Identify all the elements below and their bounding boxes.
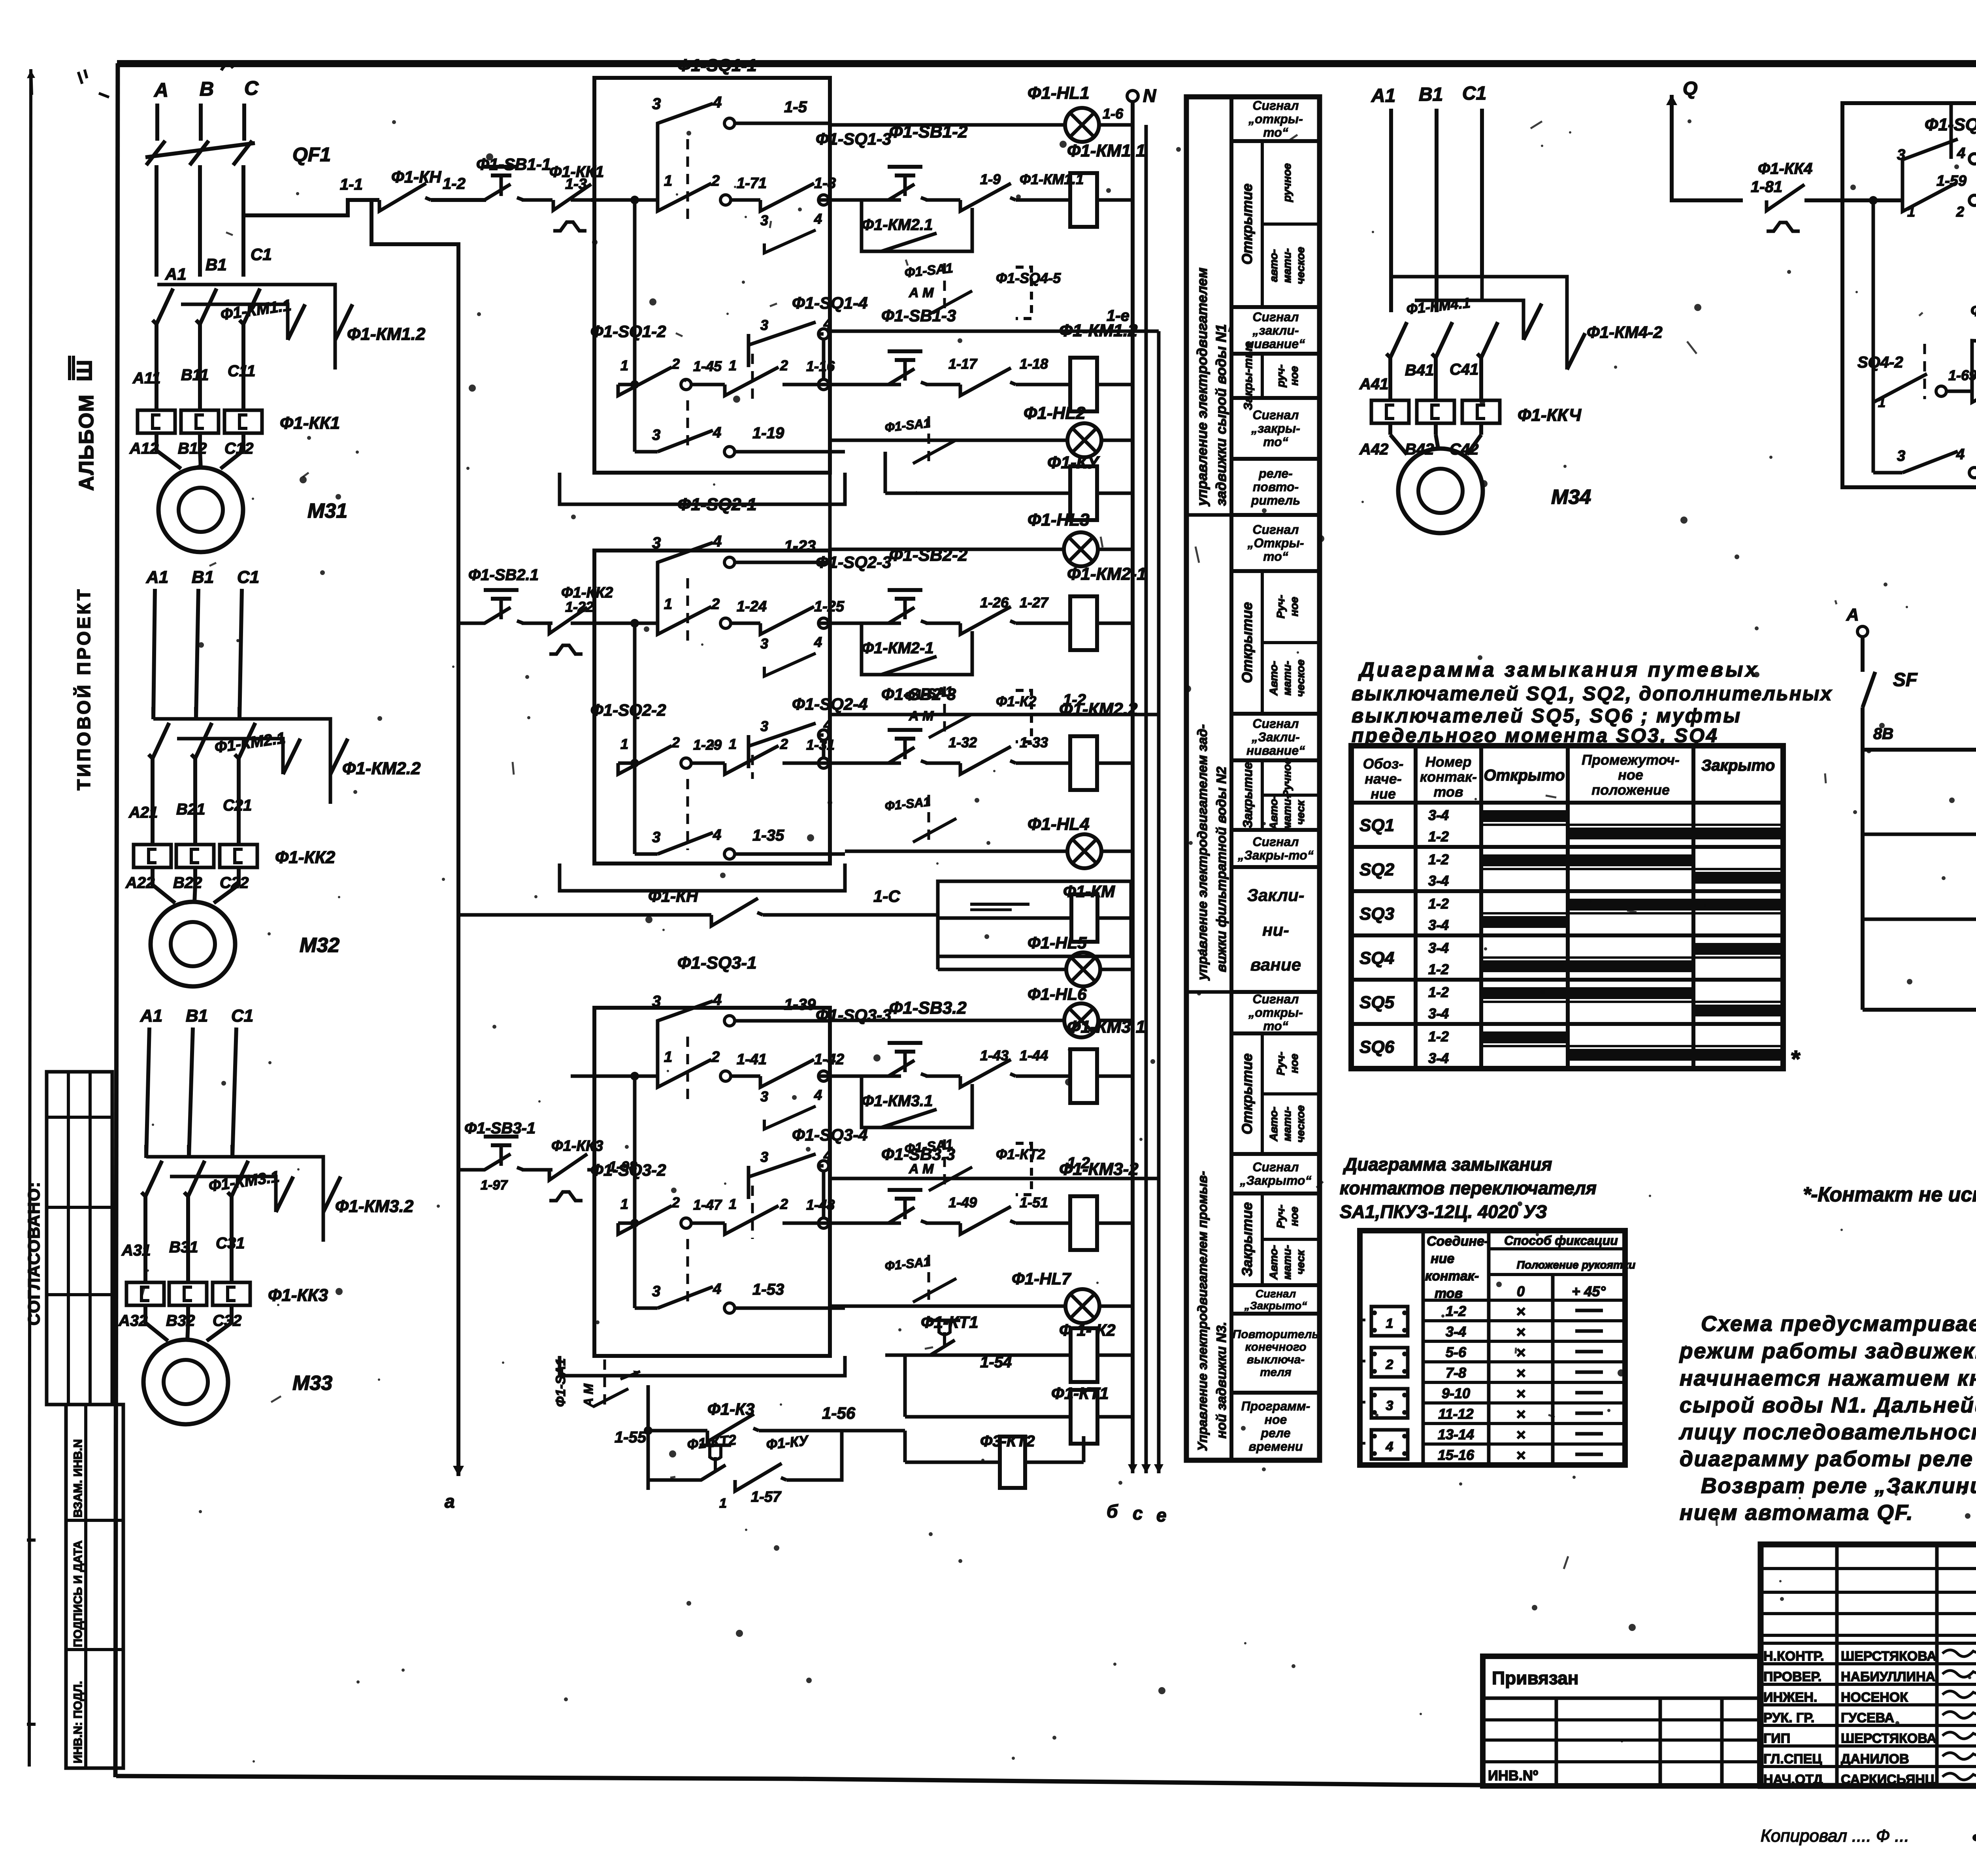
- svg-text:Ф1-НL6: Ф1-НL6: [1028, 985, 1087, 1003]
- svg-text:С1: С1: [1462, 83, 1486, 104]
- svg-text:Ф1-НL7: Ф1-НL7: [1012, 1269, 1071, 1288]
- svg-text:Ф1-SQ2-4: Ф1-SQ2-4: [792, 695, 868, 714]
- strip cell Повторитель: [1231, 1314, 1320, 1393]
- svg-text:4: 4: [713, 94, 722, 111]
- strip cell Заклинивание big: [1231, 867, 1320, 992]
- svg-text:1: 1: [620, 1196, 628, 1212]
- svg-text:Ф1-К3: Ф1-К3: [707, 1400, 754, 1418]
- strip cell Открытие with sub cells: [1231, 141, 1320, 307]
- svg-text:Руч-: Руч-: [1275, 595, 1287, 618]
- circuit breaker QF1: [146, 141, 165, 165]
- svg-text:1-24: 1-24: [737, 598, 767, 615]
- svg-text:Ф1-НL3: Ф1-НL3: [1028, 510, 1090, 530]
- svg-text:Закли-ни-вание: Закли-ни-вание: [1247, 886, 1304, 975]
- svg-text:1-3: 1-3: [565, 176, 587, 192]
- svg-text:Ручное: Ручное: [1281, 758, 1293, 798]
- svg-text:Ф1-SВ1-3: Ф1-SВ1-3: [881, 306, 956, 325]
- svg-text:1: 1: [664, 1049, 672, 1065]
- left margin tick dashes: [27, 1539, 36, 1542]
- svg-text:1-41: 1-41: [737, 1051, 767, 1068]
- svg-text:+ 45°: + 45°: [1572, 1283, 1606, 1299]
- svg-text:4: 4: [713, 424, 721, 441]
- svg-text:1-43: 1-43: [980, 1047, 1009, 1063]
- svg-text:мати-: мати-: [1281, 795, 1293, 830]
- svg-text:3: 3: [1386, 1398, 1393, 1413]
- bus end arrows б с е: [1131, 1439, 1135, 1473]
- svg-text:ное: ное: [1288, 1207, 1300, 1226]
- strip cell Сигнал: [1231, 1154, 1320, 1193]
- svg-text:9-10: 9-10: [1442, 1385, 1470, 1401]
- svg-text:Ф1-SQ1-3: Ф1-SQ1-3: [816, 130, 892, 149]
- svg-text:ручное: ручное: [1281, 163, 1293, 202]
- svg-text:Ф1-SА1: Ф1-SА1: [884, 794, 931, 813]
- svg-text:М34: М34: [1551, 486, 1591, 509]
- svg-text:1-2: 1-2: [1446, 1303, 1466, 1319]
- svg-text:руч-: руч-: [1275, 364, 1287, 388]
- svg-text:ИНВ.N: ПОДЛ.: ИНВ.N: ПОДЛ.: [72, 1681, 85, 1763]
- SA table pictogram column switches: [1371, 1307, 1408, 1336]
- svg-text:В11: В11: [181, 366, 209, 384]
- svg-text:В1: В1: [186, 1006, 208, 1026]
- svg-text:1-2: 1-2: [1428, 1028, 1449, 1045]
- svg-text:Ф1-КК4: Ф1-КК4: [1758, 160, 1812, 177]
- svg-text:А32: А32: [118, 1312, 147, 1329]
- svg-text:Диаграмма замыкания: Диаграмма замыкания: [1342, 1154, 1552, 1175]
- svg-text:Ф1-КМ3.1: Ф1-КМ3.1: [862, 1092, 933, 1110]
- svg-text:СОГЛАСОВАНО:: СОГЛАСОВАНО:: [25, 1181, 43, 1325]
- svg-text:Ф1-ККЧ: Ф1-ККЧ: [1518, 405, 1582, 425]
- svg-text:1-8: 1-8: [814, 175, 836, 192]
- svg-text:3-4: 3-4: [1428, 807, 1449, 823]
- svg-text:мати-: мати-: [1281, 1107, 1293, 1141]
- svg-text:Н.КОНТР.: Н.КОНТР.: [1763, 1649, 1824, 1664]
- svg-text:ИНВ.Nº: ИНВ.Nº: [1488, 1767, 1538, 1784]
- svg-text:1-71: 1-71: [737, 175, 767, 192]
- block4 outline: [1842, 103, 1976, 487]
- svg-text:а: а: [445, 1491, 455, 1512]
- svg-text:А12: А12: [129, 440, 158, 457]
- svg-text:4: 4: [814, 1087, 822, 1103]
- svg-text:Ш: Ш: [73, 360, 96, 381]
- svg-text:1-1: 1-1: [340, 176, 363, 193]
- svg-text:×: ×: [1516, 1447, 1525, 1464]
- svg-text:Ф1-SА1: Ф1-SА1: [904, 260, 954, 281]
- svg-text:Q: Q: [1683, 78, 1697, 99]
- svg-text:Положение рукоятки: Положение рукоятки: [1517, 1259, 1636, 1271]
- svg-text:2: 2: [1386, 1357, 1393, 1372]
- svg-text:*-Контакт не используется: *-Контакт не используется: [1803, 1183, 1976, 1206]
- svg-text:Ф1-SQ1-4: Ф1-SQ1-4: [792, 294, 868, 313]
- scan noise speckles: [1688, 119, 1691, 123]
- svg-text:Промежуточ-ноеположение: Промежуточ-ноеположение: [1582, 752, 1680, 798]
- contactor main contacts Ф1-КМ1.2: [157, 285, 335, 370]
- svg-text:1-9: 1-9: [980, 171, 1001, 187]
- svg-text:ГИП: ГИП: [1763, 1731, 1790, 1746]
- svg-text:1-2: 1-2: [1067, 1154, 1090, 1172]
- svg-text:С1: С1: [231, 1006, 253, 1026]
- svg-text:НАБИУЛЛИНА: НАБИУЛЛИНА: [1841, 1669, 1935, 1684]
- svg-text:Ф1-SА1: Ф1-SА1: [884, 1254, 931, 1273]
- phase wires from top: [155, 104, 159, 141]
- svg-text:Ф1-SQ3-1: Ф1-SQ3-1: [677, 953, 757, 973]
- svg-text:В1: В1: [192, 568, 214, 587]
- svg-text:Авто-: Авто-: [1267, 795, 1280, 830]
- SA table frame: [1360, 1231, 1625, 1465]
- left margin inventory strip frame: [66, 1405, 123, 1768]
- svg-text:В12: В12: [178, 440, 207, 457]
- svg-text:ИНЖЕН.: ИНЖЕН.: [1763, 1690, 1817, 1705]
- svg-text:В1: В1: [1419, 84, 1443, 105]
- svg-text:1-32: 1-32: [948, 734, 977, 750]
- svg-text:3: 3: [760, 212, 768, 228]
- svg-text:контак-: контак-: [1425, 1269, 1479, 1284]
- svg-text:ГЛ.СПЕЦ: ГЛ.СПЕЦ: [1763, 1752, 1822, 1767]
- svg-text:1-25: 1-25: [814, 598, 845, 615]
- svg-text:C: C: [244, 77, 259, 99]
- node A with switch SF: [1857, 626, 1868, 637]
- svg-text:А: А: [1846, 605, 1859, 624]
- svg-text:*: *: [1790, 1046, 1801, 1072]
- node N top: [1127, 91, 1138, 102]
- thermal relay Ф1-КК2 heater elements: [151, 804, 155, 845]
- svg-text:Открытие: Открытие: [1239, 602, 1255, 683]
- svg-text:Ф1-НL4: Ф1-НL4: [1028, 815, 1090, 834]
- scan marks top left corner: [221, 64, 233, 70]
- svg-text:мати-: мати-: [1281, 1245, 1293, 1280]
- svg-text:1: 1: [664, 173, 672, 189]
- svg-text:б: б: [1107, 1501, 1118, 1522]
- middle strip outer frame: [1186, 97, 1320, 1460]
- svg-text:3-4: 3-4: [1428, 1050, 1449, 1066]
- svg-text:1-2: 1-2: [1428, 984, 1449, 1000]
- main rail of block2: [630, 619, 639, 628]
- svg-text:Сигнал„Закли-нивание“: Сигнал„Закли-нивание“: [1246, 716, 1305, 758]
- svg-text:режим работы задвижек. Авто: режим работы задвижек. Автоматический ци…: [1679, 1339, 1976, 1363]
- svg-text:Руч-: Руч-: [1275, 1052, 1287, 1075]
- svg-text:SQ5: SQ5: [1359, 993, 1395, 1012]
- svg-text:3: 3: [760, 718, 768, 734]
- svg-text:Управление электродвигателем п: Управление электродвигателем промыв-: [1195, 1171, 1210, 1451]
- svg-text:Ф1-SА1: Ф1-SА1: [884, 416, 931, 435]
- svg-text:1-2: 1-2: [1428, 961, 1449, 977]
- SA table rows: [1423, 1299, 1625, 1302]
- svg-text:Сигнал„Закры-то“: Сигнал„Закры-то“: [1237, 835, 1314, 862]
- stamp table frame: [1761, 1544, 1976, 1786]
- svg-text:сырой воды N1. Дальнейшую: сырой воды N1. Дальнейшую работу задвиже…: [1680, 1393, 1976, 1417]
- control block outline block3: [594, 1008, 830, 1356]
- svg-text:Способ фиксации: Способ фиксации: [1504, 1233, 1618, 1248]
- svg-text:SQ3: SQ3: [1359, 904, 1394, 924]
- svg-text:13-14: 13-14: [1438, 1426, 1474, 1442]
- svg-text:А1: А1: [165, 265, 187, 283]
- svg-text:Сигнал„откры-то“: Сигнал„откры-то“: [1248, 98, 1303, 140]
- svg-text:Ф1-SQ2-1: Ф1-SQ2-1: [677, 495, 757, 514]
- svg-text:задвижки сырой воды N1: задвижки сырой воды N1: [1213, 324, 1229, 506]
- svg-text:A: A: [153, 79, 168, 101]
- svg-text:4: 4: [713, 827, 721, 843]
- svg-text:3-4: 3-4: [1428, 873, 1449, 889]
- svg-text:Авто-: Авто-: [1267, 1107, 1280, 1142]
- svg-text:С1: С1: [251, 245, 272, 264]
- control tap from phase C: [243, 200, 379, 215]
- svg-text:1-С: 1-С: [873, 887, 900, 905]
- svg-text:Сигнал„Откры-то“: Сигнал„Откры-то“: [1247, 522, 1304, 564]
- svg-text:Ф1-КТ2: Ф1-КТ2: [686, 1431, 737, 1453]
- strip cell Сигнал: [1231, 830, 1320, 867]
- svg-text:Ф1-НL1: Ф1-НL1: [1028, 83, 1090, 103]
- svg-text:3: 3: [652, 993, 661, 1010]
- svg-text:1-e: 1-e: [1107, 307, 1129, 324]
- svg-text:1-31: 1-31: [806, 737, 835, 753]
- SQ table frame: [1351, 746, 1783, 1069]
- strip cell Сигнал: [1231, 992, 1320, 1033]
- svg-text:1-18: 1-18: [1020, 356, 1048, 372]
- svg-text:2: 2: [780, 1196, 788, 1212]
- motor М31: [156, 433, 181, 469]
- svg-text:ческое: ческое: [1294, 1105, 1307, 1143]
- control block outline block1: [594, 78, 830, 473]
- svg-text:Ф1-КК2: Ф1-КК2: [275, 848, 336, 867]
- svg-text:3: 3: [652, 534, 661, 552]
- svg-text:B: B: [200, 78, 214, 100]
- svg-text:ное: ное: [1288, 366, 1300, 386]
- svg-text:1-49: 1-49: [948, 1194, 977, 1210]
- svg-text:Авто-: Авто-: [1267, 1245, 1280, 1280]
- strip cell Закры-тые with sub cells: [1231, 354, 1320, 398]
- N bus vertical: [1131, 102, 1135, 1468]
- svg-text:1-2: 1-2: [1428, 828, 1449, 845]
- svg-text:1-27: 1-27: [1020, 594, 1049, 611]
- strip cell Программ-: [1231, 1393, 1320, 1460]
- svg-text:3: 3: [760, 317, 768, 333]
- svg-text:Ф1-КУ: Ф1-КУ: [1047, 453, 1100, 472]
- svg-text:ное: ное: [1288, 597, 1300, 617]
- svg-text:4: 4: [713, 991, 722, 1009]
- svg-text:3: 3: [760, 635, 768, 652]
- motor М33: [145, 1305, 168, 1341]
- svg-text:Ф1-SВ3-1: Ф1-SВ3-1: [464, 1120, 535, 1137]
- svg-text:SQ4-2: SQ4-2: [1857, 354, 1903, 371]
- drawing frame left border: [115, 63, 118, 1777]
- svg-text:Ф1-SQ2-2: Ф1-SQ2-2: [590, 701, 666, 720]
- svg-text:выключателей SQ5, SQ6 ; муфт: выключателей SQ5, SQ6 ; муфты: [1352, 705, 1742, 727]
- contact КМ2-1 before coil b: [960, 747, 1011, 774]
- svg-text:1: 1: [620, 736, 628, 752]
- svg-text:ческ: ческ: [1294, 1249, 1307, 1275]
- svg-text:1-69: 1-69: [1948, 367, 1976, 383]
- svg-text:Обоз-наче-ние: Обоз-наче-ние: [1363, 756, 1404, 802]
- wires M31 to M32 branch: [153, 589, 155, 719]
- M34 phase wires: [1389, 109, 1393, 312]
- drawing frame top border: [117, 60, 1976, 67]
- svg-text:Ф1-SQ4-4: Ф1-SQ4-4: [1970, 301, 1976, 320]
- svg-text:С41: С41: [1450, 361, 1478, 378]
- block4 main rail: [1842, 198, 1902, 202]
- svg-text:1-22: 1-22: [565, 599, 594, 615]
- stamp name rows: [1761, 1642, 1976, 1645]
- svg-text:Соедине-: Соедине-: [1427, 1234, 1489, 1249]
- wires of motor branch М33: [144, 1145, 148, 1158]
- bottom row with KT2 and HA: [1863, 1008, 1976, 1012]
- svg-text:1: 1: [719, 1496, 727, 1511]
- svg-text:Ф1-КТ2: Ф1-КТ2: [996, 1146, 1045, 1162]
- svg-text:М32: М32: [300, 934, 339, 957]
- drawing frame bottom border: [116, 1776, 1483, 1785]
- svg-text:Ф1-КМ1.2: Ф1-КМ1.2: [347, 324, 426, 344]
- svg-text:С1: С1: [237, 568, 259, 587]
- strip cell Сигнал: [1231, 714, 1320, 760]
- svg-text:ческ: ческ: [1294, 799, 1307, 825]
- SA table header: [1489, 1247, 1625, 1250]
- svg-text:N: N: [1143, 85, 1156, 106]
- svg-text:Ф1-SВ3.2: Ф1-SВ3.2: [889, 998, 967, 1018]
- svg-text:3-4: 3-4: [1446, 1324, 1466, 1340]
- svg-text:1-17: 1-17: [948, 356, 978, 372]
- svg-text:РУК. ГР.: РУК. ГР.: [1763, 1710, 1814, 1725]
- svg-text:1-98: 1-98: [609, 1158, 637, 1175]
- stamp top small rows: [1761, 1567, 1976, 1570]
- svg-text:Руч-: Руч-: [1275, 1205, 1287, 1228]
- svg-text:Ф1-КН: Ф1-КН: [648, 887, 699, 905]
- svg-text:В1: В1: [206, 255, 227, 274]
- privyazan block frame: [1483, 1656, 1760, 1786]
- svg-text:2: 2: [711, 173, 720, 189]
- svg-text:ческое: ческое: [1294, 247, 1307, 285]
- svg-text:4: 4: [713, 1281, 721, 1297]
- svg-text:×: ×: [1516, 1344, 1525, 1361]
- svg-text:3: 3: [760, 1088, 768, 1105]
- svg-text:ВЗАМ. ИНВ.N: ВЗАМ. ИНВ.N: [72, 1439, 85, 1518]
- svg-text:Сигнал„откры-то“: Сигнал„откры-то“: [1248, 992, 1303, 1033]
- svg-text:5-6: 5-6: [1446, 1344, 1467, 1360]
- svg-text:Авто-: Авто-: [1267, 661, 1280, 696]
- svg-text:мати-: мати-: [1281, 661, 1293, 696]
- strip cell Открытие with sub cells: [1231, 571, 1320, 714]
- contactor main contacts Ф1-КМ3.2: [146, 1157, 323, 1242]
- svg-text:Ф1-SQ3-4: Ф1-SQ3-4: [792, 1126, 868, 1144]
- svg-text:×: ×: [1516, 1406, 1525, 1423]
- svg-text:контактов переключателя: контактов переключателя: [1340, 1178, 1597, 1198]
- svg-text:×: ×: [1516, 1303, 1525, 1320]
- svg-text:11-12: 11-12: [1438, 1406, 1473, 1422]
- svg-text:SQ4: SQ4: [1359, 948, 1394, 968]
- svg-text:Ф1-КМ2.1: Ф1-КМ2.1: [862, 216, 933, 234]
- thermal relay Ф1-КК3 heater elements: [143, 1242, 147, 1282]
- svg-text:Привязан: Привязан: [1492, 1668, 1579, 1688]
- svg-text:авто-: авто-: [1267, 249, 1280, 282]
- svg-text:Открыто: Открыто: [1484, 767, 1565, 784]
- svg-text:1-81: 1-81: [1751, 178, 1782, 196]
- svg-text:ПОДПИСЬ И ДАТА: ПОДПИСЬ И ДАТА: [72, 1540, 85, 1647]
- svg-text:QF1: QF1: [292, 143, 331, 166]
- svg-text:Ф1-КУ: Ф1-КУ: [766, 1432, 810, 1453]
- svg-text:ное: ное: [1288, 1054, 1300, 1073]
- node 1-55 and K3 contact row: [644, 1426, 652, 1435]
- svg-text:мати-: мати-: [1281, 248, 1293, 283]
- svg-text:Открытие: Открытие: [1239, 183, 1255, 264]
- svg-text:1-16: 1-16: [806, 358, 835, 374]
- svg-text:М31: М31: [307, 500, 347, 522]
- svg-text:Ф1-SВ2-3: Ф1-SВ2-3: [881, 685, 956, 703]
- control block outline block2: [594, 551, 830, 864]
- svg-text:ческое: ческое: [1294, 660, 1307, 697]
- feeder drop to lower blocks: [371, 200, 458, 1174]
- svg-text:Схема предусматривает местны: Схема предусматривает местный и автомати…: [1701, 1311, 1976, 1336]
- svg-text:В22: В22: [173, 874, 202, 892]
- svg-text:1-2: 1-2: [1428, 851, 1449, 867]
- svg-text:4: 4: [713, 533, 722, 550]
- second rail of block3: [630, 1219, 639, 1227]
- svg-text:Копировал .... Ф ...: Копировал .... Ф ...: [1761, 1826, 1909, 1846]
- svg-text:Ф1-SQ4-5: Ф1-SQ4-5: [996, 270, 1061, 286]
- svg-text:Сигнал„Закрыто“: Сигнал„Закрыто“: [1239, 1160, 1311, 1188]
- svg-text:4: 4: [814, 634, 822, 650]
- svg-text:АЛЬБОМ: АЛЬБОМ: [75, 394, 98, 491]
- svg-text:Открытие: Открытие: [1239, 1053, 1255, 1134]
- svg-text:1: 1: [729, 736, 737, 752]
- svg-text:3: 3: [652, 95, 661, 113]
- svg-text:2: 2: [671, 734, 680, 750]
- svg-text:3-4: 3-4: [1428, 940, 1449, 956]
- svg-text:1: 1: [1386, 1316, 1393, 1331]
- second rail of block2: [630, 759, 639, 767]
- svg-text:А42: А42: [1359, 441, 1388, 458]
- svg-text:3: 3: [652, 427, 660, 443]
- contact КМ1.1 before coil b: [960, 368, 1011, 396]
- svg-text:15-16: 15-16: [1438, 1447, 1474, 1463]
- stamp left columns: [1835, 1544, 1839, 1786]
- svg-text:1-23: 1-23: [784, 537, 816, 555]
- svg-text:1-42: 1-42: [814, 1051, 844, 1068]
- contact КМ3.1 before coil b: [960, 1207, 1011, 1234]
- svg-text:ПРОВЕР.: ПРОВЕР.: [1763, 1669, 1821, 1684]
- svg-text:Сигнал„закли-нивание“: Сигнал„закли-нивание“: [1246, 310, 1305, 351]
- svg-text:2: 2: [711, 596, 720, 613]
- svg-text:М33: М33: [292, 1372, 332, 1395]
- svg-text:Возврат реле „Заклинивание“: Возврат реле „Заклинивание“ осуществляет…: [1701, 1473, 1976, 1498]
- svg-text:×: ×: [1516, 1385, 1525, 1403]
- svg-text:SQ1: SQ1: [1359, 816, 1394, 835]
- svg-text:4: 4: [1957, 145, 1965, 162]
- svg-text:4: 4: [1386, 1439, 1393, 1454]
- thermal relay Ф1-КК1 heater elements: [155, 370, 158, 410]
- svg-text:Ф1-КК3: Ф1-КК3: [268, 1286, 328, 1305]
- svg-text:А М: А М: [909, 285, 934, 300]
- svg-text:управление электродвигателем: управление электродвигателем: [1194, 268, 1210, 507]
- svg-text:×: ×: [1516, 1426, 1525, 1444]
- top row with chevrons: [1863, 748, 1976, 752]
- svg-text:Ф1-НL5: Ф1-НL5: [1028, 933, 1087, 952]
- svg-text:ТИПОВОЙ ПРОЕКТ: ТИПОВОЙ ПРОЕКТ: [74, 587, 94, 790]
- contactor main contacts Ф1-КМ2.2: [153, 719, 330, 804]
- svg-text:А1: А1: [140, 1006, 162, 1026]
- svg-text:1-47: 1-47: [693, 1197, 722, 1213]
- svg-text:2: 2: [780, 357, 788, 373]
- left margin approval table grid: [47, 1072, 112, 1405]
- wires M32 to M33 branch: [146, 1028, 149, 1158]
- svg-text:Закрытие: Закрытие: [1241, 762, 1255, 828]
- svg-text:ШЕРСТЯКОВА: ШЕРСТЯКОВА: [1841, 1731, 1936, 1746]
- svg-text:3: 3: [1897, 448, 1905, 464]
- svg-text:Закрыто: Закрыто: [1701, 757, 1775, 774]
- svg-text:Программ-ноерелевремени: Программ-ноерелевремени: [1241, 1399, 1310, 1454]
- sheet left border top arrowhead: [31, 70, 32, 95]
- svg-text:SQ2: SQ2: [1359, 860, 1395, 879]
- wires below QF1: [155, 186, 158, 277]
- svg-text:×: ×: [1516, 1365, 1525, 1382]
- motor М32: [153, 867, 175, 903]
- svg-text:Ф1-SВ3.3: Ф1-SВ3.3: [881, 1145, 955, 1163]
